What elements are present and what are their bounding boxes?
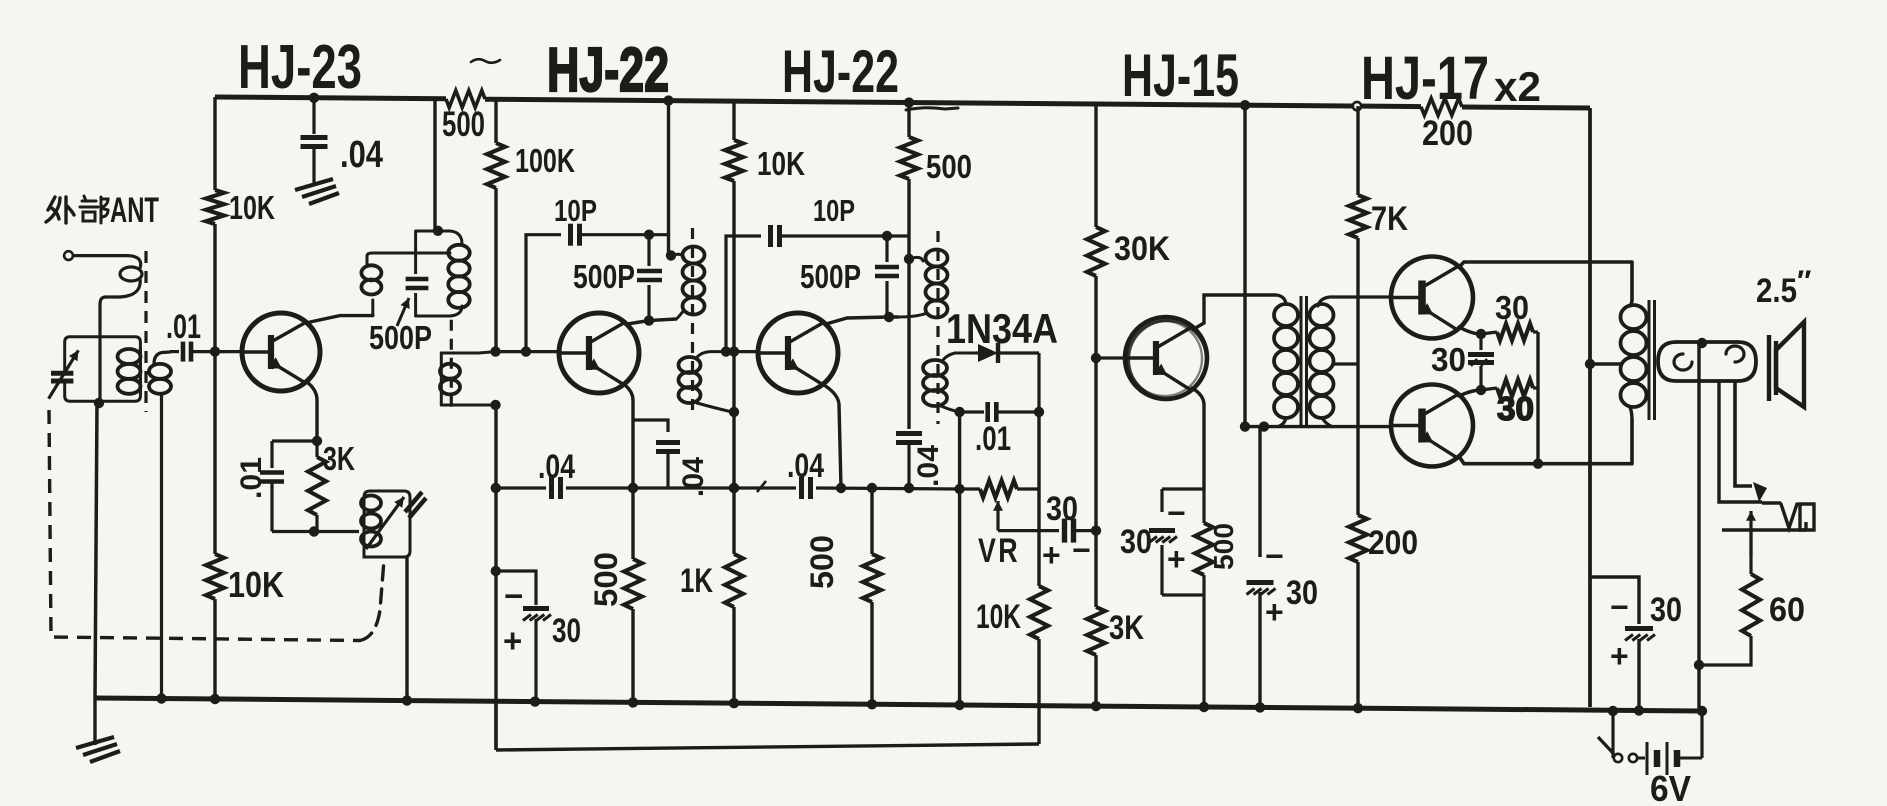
svg-text:500P: 500P — [573, 258, 635, 295]
svg-text:6V: 6V — [1650, 768, 1691, 806]
svg-text:30: 30 — [1431, 341, 1466, 378]
label 500 rotated (Q3 emitter) — [804, 535, 840, 589]
resistor 500 (Q2 emitter) — [624, 488, 642, 702]
transistor Q2 (HJ-22) — [559, 313, 639, 393]
wire 100K bias line x496 — [490, 99, 501, 750]
label VR — [978, 532, 1020, 570]
resistor 1K — [680, 554, 743, 607]
capacitor .04 (Q2 emitter) — [633, 420, 680, 488]
label 30 (Q5 emitter R) — [1495, 289, 1529, 326]
capacitor 30 (driver bypass) — [1247, 427, 1276, 708]
speaker 2.5in — [1769, 322, 1804, 407]
transistor Q5 (HJ-17 upper) — [1391, 257, 1473, 339]
T1 core (dashed) — [450, 320, 453, 413]
svg-text:1N34A: 1N34A — [946, 305, 1058, 352]
T1 secondary — [440, 352, 501, 411]
resistor 500 (Q3 collector) — [900, 137, 972, 185]
label 30 (Q6 emitter R) — [1497, 390, 1534, 427]
transistor Q4 (HJ-15) — [1125, 317, 1207, 399]
svg-text:30: 30 — [1497, 390, 1534, 427]
wire Q4 collector — [1192, 295, 1276, 330]
transformer T4 primary — [1274, 295, 1298, 427]
label .04 (bus right) — [787, 447, 824, 485]
VR wiper arrow — [993, 501, 1003, 531]
jack fixed contact V-box — [1781, 504, 1814, 530]
svg-text:3K: 3K — [1109, 609, 1144, 647]
svg-text:+: + — [1265, 594, 1284, 630]
wire osc coil to rail — [405, 557, 408, 701]
svg-text:+: + — [1042, 537, 1061, 573]
label HJ-22 (2nd IF) — [782, 38, 899, 105]
kanji 外部 — [46, 196, 108, 223]
svg-text:HJ-22: HJ-22 — [782, 38, 899, 105]
resistor 10K lower-left — [206, 554, 284, 605]
wire Q2 base — [496, 346, 560, 356]
wire left bias chain x215 — [210, 97, 220, 704]
T3 secondary — [923, 353, 975, 412]
tuning box outline — [65, 337, 141, 402]
label .01 antenna — [166, 308, 201, 346]
label 500 rotated (Q2 emitter) — [588, 552, 624, 607]
wire driver bottom bus — [1245, 421, 1391, 431]
label HJ-17 x2 — [1361, 44, 1541, 112]
svg-text:+: + — [503, 622, 522, 659]
label 2.5" — [1756, 265, 1811, 310]
voice coil assembly — [1658, 338, 1756, 381]
resistor 500 (Q4 emitter) — [1195, 523, 1213, 575]
svg-text:VR: VR — [978, 532, 1020, 570]
wire detector left side — [954, 412, 964, 705]
wire ground stem — [93, 698, 96, 745]
svg-text:30: 30 — [1120, 523, 1152, 561]
transistor Q1 (HJ-23) — [242, 313, 320, 391]
capacitor 500P (Q2 neutralize) — [637, 235, 662, 326]
oscillator coil — [361, 491, 426, 557]
resistor 30K — [1087, 227, 1170, 276]
resistor 10K upper-left — [206, 189, 275, 226]
diode 1N34A — [975, 343, 1039, 363]
antenna primary coil — [100, 256, 142, 336]
wire jack upper — [1719, 381, 1781, 503]
label HJ-22 (1st IF) — [547, 36, 669, 105]
label 10P (Q2) — [554, 193, 597, 228]
transformer T2 primary — [671, 247, 705, 320]
svg-text:500: 500 — [804, 535, 840, 589]
label 500P (Q3) — [800, 258, 861, 295]
svg-text:30: 30 — [552, 612, 581, 650]
svg-text:500P: 500P — [369, 319, 432, 356]
capacitor .01 (emitter) — [260, 473, 284, 532]
resistor 3K (HJ-15) — [1087, 607, 1144, 655]
svg-text:−: − — [1265, 538, 1284, 574]
svg-text:.01: .01 — [235, 457, 268, 499]
resistor 100K — [487, 142, 575, 188]
svg-text:.04: .04 — [538, 448, 575, 486]
svg-text:3K: 3K — [323, 440, 355, 477]
svg-text:+: + — [1610, 638, 1629, 674]
wire osc feed from top rail — [433, 99, 436, 231]
svg-text:HJ-17: HJ-17 — [1361, 44, 1489, 112]
svg-text:.04: .04 — [787, 447, 824, 485]
wire 7K center-tap line — [1334, 106, 1358, 708]
label .04 rotated (x909) — [912, 445, 945, 487]
svg-text:−: − — [1167, 495, 1186, 531]
svg-text:60: 60 — [1769, 591, 1805, 629]
svg-text:−: − — [504, 577, 523, 614]
wire driver B+ line x1245 — [1240, 105, 1250, 432]
T4 core — [1301, 296, 1307, 427]
capacitor .04 (x909) — [896, 434, 922, 494]
wire Q5 collector — [1458, 262, 1632, 300]
wire antenna coil to box — [94, 337, 104, 408]
capacitor .04 (bus left) — [552, 477, 561, 499]
wire Q2 collector — [627, 319, 676, 324]
svg-text:30: 30 — [1495, 289, 1529, 326]
wire Q4 emitter — [1192, 388, 1204, 489]
wire bias line x1096 — [1091, 104, 1101, 706]
capacitor .04 (AGC bypass) — [301, 98, 328, 186]
ground (.04 cap) — [295, 179, 339, 204]
svg-text:.04: .04 — [677, 457, 710, 497]
svg-text:−: − — [1610, 589, 1629, 625]
wire AVC return (lower loop) — [494, 700, 497, 750]
svg-text:10K: 10K — [228, 564, 284, 605]
ferrite core (dashed) — [144, 251, 147, 412]
capacitor 10P (Q3 feedback) — [726, 225, 909, 352]
ground (main) — [76, 737, 120, 762]
label .01 rotated — [235, 457, 268, 499]
wire Q6 emitter — [1459, 385, 1486, 396]
svg-text:30: 30 — [1650, 591, 1682, 629]
wire speaker left lead — [1697, 343, 1700, 711]
svg-text:10K: 10K — [976, 598, 1021, 636]
label 外部 ANT — [110, 191, 159, 230]
label 500 rotated (Q4) — [1208, 523, 1239, 570]
wire Q6 collector — [1458, 420, 1632, 464]
capacitor 30 (Q2 stage bypass) — [496, 571, 551, 702]
svg-text:200: 200 — [1368, 524, 1418, 562]
label 60 — [1769, 591, 1805, 629]
capacitor 30 (AF coupling) — [998, 519, 1101, 543]
resistor 60 — [1694, 530, 1760, 670]
wire top supply rail — [215, 91, 1590, 116]
label 30 - + (Q2 bypass) — [503, 577, 581, 659]
resistor 30 (Q5 emitter) — [1481, 324, 1538, 341]
transformer T1 primary+cap frame — [416, 226, 470, 316]
transistor Q3 (HJ-22 2nd) — [758, 313, 838, 393]
wire bottom rail — [95, 693, 1707, 716]
svg-text:−: − — [1072, 532, 1091, 568]
wire VR right side — [496, 412, 1039, 750]
svg-text:.04: .04 — [340, 134, 383, 176]
svg-text:30K: 30K — [1114, 230, 1170, 268]
svg-text:500: 500 — [926, 148, 972, 185]
svg-text:.01: .01 — [975, 420, 1011, 458]
T3 core (dashed) — [936, 231, 939, 424]
switch — [1598, 737, 1637, 762]
svg-text:100K: 100K — [515, 142, 575, 179]
svg-text:7K: 7K — [1371, 200, 1408, 238]
label 30 + - (AF coupling) — [1042, 490, 1091, 573]
wire bias line x734 — [729, 101, 739, 703]
wire emitter R junction — [1533, 332, 1543, 469]
svg-text:200: 200 — [1422, 114, 1473, 153]
wire Q1 collector — [310, 316, 373, 322]
svg-text:30: 30 — [1046, 490, 1078, 528]
wire Q4 base — [1096, 356, 1125, 359]
svg-text:2.5: 2.5 — [1756, 272, 1797, 310]
scan smudge marks — [471, 59, 958, 110]
tuning gang dashed link — [49, 410, 384, 641]
svg-text:″: ″ — [1797, 265, 1811, 298]
wire jack lower — [1722, 522, 1806, 530]
wire battery branch left — [1608, 706, 1618, 758]
resistor 7K — [1349, 195, 1408, 238]
svg-text:10P: 10P — [813, 193, 855, 228]
T1 feed winding — [361, 253, 450, 316]
svg-text:ANT: ANT — [110, 191, 159, 230]
label HJ-15 — [1122, 42, 1239, 109]
wire tuned circuit to ground rail — [95, 401, 97, 698]
variable capacitor (tuning) — [49, 350, 79, 398]
label 500P (Q2) — [573, 258, 635, 295]
capacitor .01 (detector) — [954, 402, 1039, 422]
battery 6V — [1638, 711, 1702, 775]
wire IFT3 feed line x909 — [904, 103, 914, 429]
svg-text:1K: 1K — [680, 562, 713, 600]
T2 core (dashed) — [691, 228, 694, 418]
wire detector right side — [1034, 353, 1044, 417]
label HJ-23 — [238, 33, 362, 102]
svg-text:500: 500 — [1208, 523, 1239, 570]
svg-text:30: 30 — [1286, 574, 1318, 612]
wire Q2 emitter — [625, 385, 638, 493]
transistor Q6 (HJ-17 lower) — [1391, 385, 1473, 467]
svg-text:10K: 10K — [757, 145, 805, 182]
svg-text:500P: 500P — [800, 258, 861, 295]
wire emitter network top — [272, 441, 317, 468]
transformer T5 primary — [1621, 300, 1647, 420]
label .04 rotated (Q2) — [677, 457, 710, 497]
svg-text:10K: 10K — [229, 189, 275, 226]
label 10P (Q3) — [813, 193, 855, 228]
label 30 - + (driver) — [1265, 538, 1318, 630]
jack wiper arrow — [1746, 511, 1756, 556]
label 1N34A — [946, 305, 1058, 352]
label .04 (bus left) — [538, 448, 575, 486]
svg-text:500: 500 — [442, 105, 485, 144]
T2 secondary — [679, 352, 740, 418]
capacitor 30 (battery filter) — [1590, 577, 1655, 711]
svg-text:x2: x2 — [1494, 63, 1541, 110]
capacitor .04 (bus right) — [757, 477, 811, 499]
label 30 - + (battery filter) — [1610, 589, 1682, 674]
svg-text:+: + — [1167, 541, 1186, 577]
wire Q3 collector — [826, 317, 898, 324]
label .01 (detector) — [975, 420, 1011, 458]
wire AVC bus — [496, 483, 960, 493]
label 500P with arrow — [369, 298, 432, 356]
T4 secondary — [1310, 297, 1392, 427]
transformer T3 primary — [898, 250, 948, 318]
svg-text:HJ-15: HJ-15 — [1122, 42, 1239, 109]
wire jack arm — [1735, 381, 1767, 502]
resistor 30 (Q6 emitter) — [1481, 380, 1538, 397]
wire IFT2 feed line — [666, 101, 676, 261]
svg-text:500: 500 — [588, 552, 624, 607]
capacitor .01 (antenna) — [170, 342, 243, 362]
label 200 (rail resistor) — [1422, 114, 1473, 153]
resistor 3K (emitter) — [308, 440, 355, 532]
wire emitter network bottom — [272, 526, 359, 536]
base coupling coil — [149, 352, 171, 699]
capacitor 30 (between emitters) — [1468, 334, 1494, 390]
resistor 200 (center tap) — [1349, 515, 1418, 562]
label 500 (rail resistor) — [442, 105, 485, 144]
antenna terminal — [64, 251, 128, 260]
wire Q3 base — [721, 346, 758, 356]
svg-text:.04: .04 — [912, 445, 945, 487]
resistor 10K (Q3 bias) — [725, 140, 805, 182]
antenna tuning coil — [118, 348, 141, 394]
T5 core — [1649, 300, 1655, 420]
wire B+ right x1590 — [1585, 108, 1595, 707]
capacitor 500P (Q3 neutralize) — [875, 236, 899, 322]
svg-text:10P: 10P — [554, 193, 597, 228]
label .04 (top) — [340, 134, 383, 176]
wire Q5 emitter — [1459, 327, 1486, 339]
label 6V — [1650, 768, 1691, 806]
potentiometer VR — [960, 481, 1039, 498]
svg-text:HJ-22: HJ-22 — [547, 36, 669, 105]
Q4 emitter RC frame — [1162, 489, 1204, 707]
wire Q1 emitter — [307, 382, 322, 446]
capacitor 10P (Q2 feedback) — [526, 224, 669, 352]
wire output center tap — [1590, 362, 1622, 365]
label 30 - + (Q4 emitter) — [1120, 495, 1186, 577]
svg-text:HJ-23: HJ-23 — [238, 33, 362, 102]
wire Q3 emitter — [824, 385, 841, 488]
resistor 500 (Q3 emitter) — [863, 488, 881, 704]
capacitor 30 (Q4 emitter) — [1149, 531, 1177, 543]
svg-text:.01: .01 — [166, 308, 201, 346]
label 30 (emitter cap) — [1431, 341, 1466, 378]
resistor 10K (detector load) — [976, 586, 1048, 639]
capacitor 500P (inside T1) — [406, 279, 429, 288]
